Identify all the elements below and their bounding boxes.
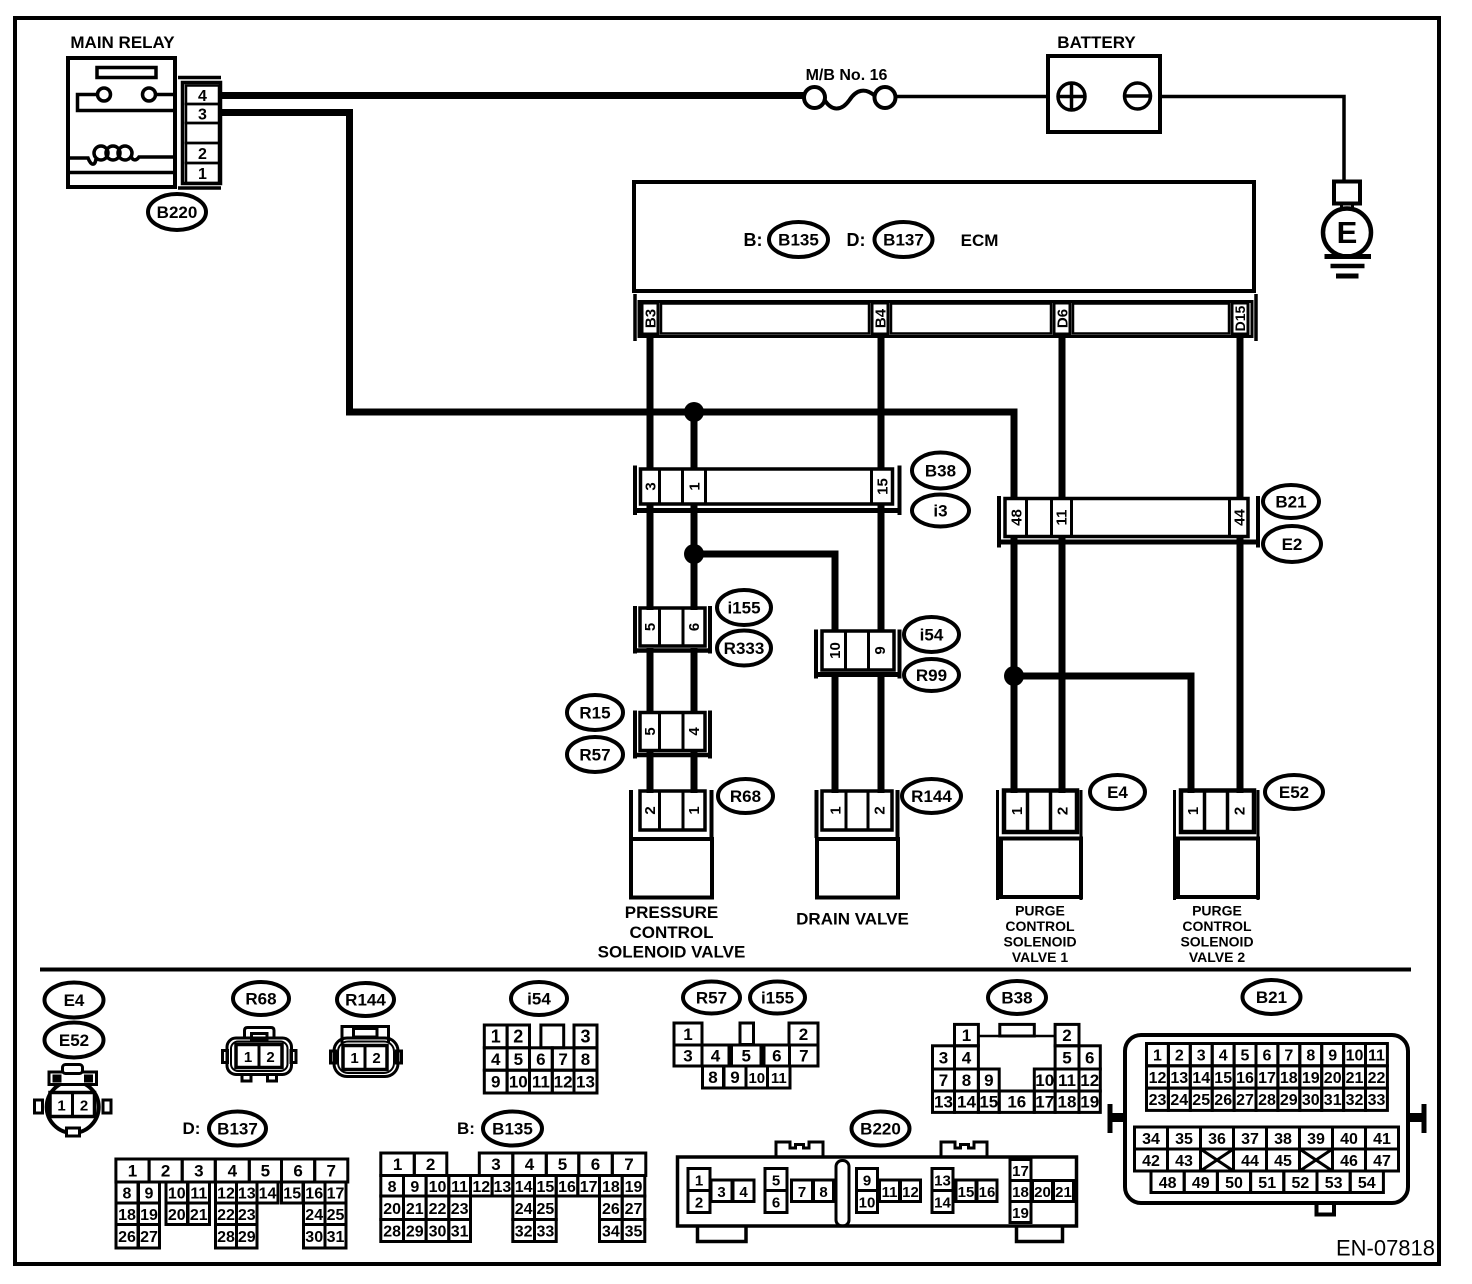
svg-text:6: 6 — [1085, 1048, 1094, 1067]
svg-text:11: 11 — [771, 1070, 787, 1087]
B135 pin 30 — [426, 1220, 449, 1242]
svg-text:27: 27 — [140, 1229, 158, 1246]
battery body — [1048, 56, 1160, 132]
i54 pin 7 — [552, 1048, 574, 1070]
B21/E2 left bracket — [997, 496, 1001, 548]
R15/R57 housing — [640, 713, 705, 751]
wire B38 pin 1 to i155 pin 6 — [691, 505, 698, 610]
B38/i3 right bracket — [898, 466, 902, 516]
wire branch junction to i54 pin 10 — [694, 554, 835, 632]
wire relay pin 3 power bus to B21/E2 pin 48 — [222, 113, 1014, 501]
B38 pin 10 — [1034, 1069, 1055, 1091]
B220 pin 1 — [186, 163, 219, 183]
B21 pin 26 — [1212, 1088, 1234, 1110]
svg-text:4: 4 — [491, 1050, 501, 1069]
B21/E2 divider 2 — [1050, 499, 1053, 537]
B21 pin 30 — [1300, 1088, 1322, 1110]
ECM U1 body — [634, 182, 1254, 291]
B21 pin 4 — [1212, 1044, 1234, 1066]
svg-text:CONTROL: CONTROL — [629, 923, 713, 942]
ECM pin D6 — [1054, 303, 1071, 334]
i155/R333 divider 2 — [682, 608, 685, 646]
svg-text:10: 10 — [1346, 1048, 1364, 1065]
B21 face left tab bar — [1108, 1104, 1113, 1133]
svg-text:3: 3 — [580, 1026, 590, 1046]
svg-text:23: 23 — [1149, 1092, 1167, 1109]
svg-text:CONTROL: CONTROL — [1005, 918, 1075, 934]
svg-text:9: 9 — [863, 1173, 871, 1190]
svg-text:19: 19 — [140, 1207, 158, 1224]
B137 pin 16 — [304, 1182, 326, 1203]
svg-text:48: 48 — [1159, 1175, 1177, 1192]
svg-text:5: 5 — [514, 1050, 523, 1069]
connector B220 top bracket — [178, 76, 221, 80]
B38 pin 13 — [933, 1091, 955, 1112]
B21 pin 36 — [1201, 1127, 1234, 1149]
svg-text:D15: D15 — [1232, 305, 1248, 331]
wire branch junction to E52 pin 1 — [1014, 676, 1191, 793]
svg-text:B135: B135 — [778, 231, 819, 250]
B137 pin 23 — [237, 1203, 258, 1225]
junction bus to B38 pin 1 — [684, 402, 704, 422]
R57/i155 connector face grid — [674, 1023, 818, 1088]
svg-text:2: 2 — [1175, 1048, 1184, 1065]
svg-text:43: 43 — [1175, 1153, 1193, 1170]
svg-text:R68: R68 — [245, 990, 276, 1009]
face view designator R57 — [683, 982, 740, 1014]
ground E symbol — [1323, 209, 1371, 257]
B135 pin 10 — [426, 1176, 449, 1197]
svg-text:B21: B21 — [1275, 493, 1306, 512]
R15/R57 bottom bar — [633, 753, 712, 758]
svg-text:E4: E4 — [1107, 783, 1128, 802]
svg-text:44: 44 — [1231, 509, 1248, 526]
svg-text:28: 28 — [1258, 1092, 1276, 1109]
svg-text:22: 22 — [1368, 1070, 1386, 1087]
wire fuse to battery positive — [896, 95, 1049, 99]
wire ECM B4 down to B38 pin 15 — [878, 334, 885, 470]
R68 connector face view — [223, 1028, 297, 1082]
i155/R333 divider 1 — [658, 608, 661, 646]
svg-text:4: 4 — [1219, 1048, 1228, 1065]
B21 pin 25 — [1190, 1088, 1212, 1110]
wire B21/E2 pin 48 to E4 pin 1 — [1011, 538, 1018, 793]
svg-text:2: 2 — [642, 806, 659, 814]
B137 pin 8 — [116, 1182, 138, 1203]
B38/i3 housing — [641, 469, 893, 504]
svg-text:10: 10 — [168, 1186, 186, 1203]
B220 face top tab 2 — [941, 1142, 987, 1156]
label PURGE CONTROL SOLENOID VALVE 2 — [1180, 903, 1253, 966]
connector designator R68 — [718, 779, 773, 813]
E52 housing — [1181, 791, 1254, 833]
B38 pin 9 — [978, 1069, 999, 1091]
face view designator B137 — [209, 1112, 266, 1146]
svg-text:46: 46 — [1340, 1153, 1358, 1170]
svg-text:10: 10 — [827, 642, 844, 659]
B220 face top tab 1 — [776, 1142, 823, 1156]
svg-text:7: 7 — [624, 1155, 633, 1174]
B135 pin 2 — [414, 1153, 447, 1176]
B135 pin 11 — [449, 1176, 471, 1197]
svg-text:17: 17 — [327, 1186, 345, 1203]
B21 face right tab bar — [1422, 1104, 1427, 1133]
svg-text:8: 8 — [962, 1071, 971, 1090]
B21 pin 40 — [1333, 1127, 1366, 1149]
svg-text:11: 11 — [190, 1186, 207, 1203]
svg-text:14: 14 — [934, 1195, 951, 1212]
B137 pin 21 — [188, 1203, 210, 1225]
svg-text:6: 6 — [591, 1155, 600, 1174]
B21 pin 39 — [1300, 1127, 1333, 1149]
wire B21/E2 pin 44 to E52 pin 2 — [1237, 538, 1244, 793]
B38 face key tab — [1000, 1024, 1035, 1036]
B220 pin 3 — [711, 1180, 732, 1202]
connector designator i155 — [717, 590, 771, 625]
connector B220 housing — [183, 83, 221, 184]
svg-text:1: 1 — [827, 806, 844, 814]
i54 connector face grid — [484, 1025, 597, 1093]
B220 face key slot — [836, 1161, 849, 1227]
svg-text:i54: i54 — [527, 990, 551, 1009]
svg-text:10: 10 — [859, 1195, 876, 1212]
B38 pin 16 — [999, 1091, 1034, 1112]
R144 connector face view — [331, 1027, 402, 1077]
svg-text:3: 3 — [642, 482, 659, 490]
i155/R333 right bracket — [708, 606, 712, 654]
svg-text:3: 3 — [194, 1162, 203, 1181]
i54 pin 3 — [574, 1025, 597, 1048]
svg-text:DRAIN VALVE: DRAIN VALVE — [796, 910, 909, 929]
i155/R333 housing — [640, 608, 705, 646]
B38 pin 5 — [1055, 1046, 1079, 1069]
B220 pin 1 — [688, 1169, 710, 1191]
face view designator E52 — [45, 1023, 104, 1058]
B21 pin 51 — [1251, 1171, 1284, 1193]
drain valve body — [817, 839, 898, 898]
svg-text:27: 27 — [625, 1201, 643, 1218]
svg-text:39: 39 — [1307, 1131, 1325, 1148]
B38 pin 4 — [955, 1046, 979, 1069]
svg-text:4: 4 — [711, 1047, 721, 1066]
B137 pin 20 — [166, 1203, 188, 1225]
face view designator i155 — [750, 982, 805, 1014]
svg-text:R57: R57 — [696, 989, 727, 1008]
connector designator i54 — [904, 617, 959, 652]
connector designator B137 — [875, 222, 933, 257]
B21 pin 50 — [1217, 1171, 1250, 1193]
svg-text:28: 28 — [217, 1229, 235, 1246]
i54/R99 bottom bar — [814, 672, 902, 677]
svg-text:D6: D6 — [1054, 309, 1071, 328]
relay contact right terminal — [143, 88, 156, 101]
svg-text:16: 16 — [305, 1186, 323, 1203]
fuse M/B No.16 left terminal — [804, 87, 825, 108]
B21 pin 52 — [1284, 1171, 1317, 1193]
svg-text:53: 53 — [1325, 1175, 1343, 1192]
R15/R57 left bracket — [633, 711, 637, 759]
junction to purge valve 2 branch — [1004, 666, 1024, 686]
svg-text:11: 11 — [1053, 510, 1070, 526]
svg-text:12: 12 — [1149, 1070, 1167, 1087]
fuse element wire — [824, 91, 875, 109]
connector designator B21 — [1263, 485, 1319, 518]
svg-text:48: 48 — [1008, 509, 1025, 526]
B137 pin 11 — [188, 1182, 210, 1203]
B21 pin 38 — [1267, 1127, 1300, 1149]
svg-text:16: 16 — [1236, 1070, 1254, 1087]
B137 pin 18 — [116, 1203, 138, 1225]
B21 pin 24 — [1168, 1088, 1190, 1110]
svg-text:20: 20 — [1034, 1184, 1051, 1201]
ground neck right — [1351, 204, 1354, 212]
ground bar 3 — [1336, 274, 1359, 279]
svg-text:15: 15 — [1214, 1070, 1232, 1087]
B137 pin 15 — [282, 1182, 304, 1203]
svg-text:9: 9 — [730, 1068, 739, 1087]
svg-text:9: 9 — [984, 1071, 993, 1090]
B220 face bottom tab 1 — [698, 1228, 747, 1242]
face view designator B38 — [988, 981, 1046, 1014]
svg-text:17: 17 — [580, 1179, 598, 1196]
svg-text:19: 19 — [1012, 1205, 1029, 1222]
relay coil — [94, 146, 132, 160]
B220 face housing — [678, 1157, 1077, 1226]
B21 face right tab link — [1408, 1113, 1424, 1122]
svg-text:B21: B21 — [1256, 988, 1287, 1007]
connector designator B220 — [148, 194, 206, 230]
svg-text:12: 12 — [902, 1184, 919, 1201]
svg-text:13: 13 — [576, 1073, 595, 1092]
R57/i155 pin 10 — [746, 1066, 768, 1088]
R144 divider 2 — [867, 791, 870, 830]
svg-text:4: 4 — [198, 88, 207, 105]
svg-text:9: 9 — [491, 1073, 500, 1092]
B21 pin 46 — [1333, 1149, 1366, 1171]
i54 pin 2 — [507, 1025, 529, 1048]
i54 pin 12 — [552, 1070, 574, 1093]
wire R15 pin 5 to R68 pin 2 — [647, 752, 654, 793]
connector designator B38 — [912, 453, 969, 489]
wire i54 pin 10 to R144 pin 1 — [832, 672, 839, 793]
svg-text:21: 21 — [406, 1201, 424, 1218]
svg-text:i54: i54 — [920, 626, 944, 645]
B137 pin 7 — [315, 1159, 348, 1182]
svg-text:R15: R15 — [579, 704, 610, 723]
svg-text:13: 13 — [1170, 1070, 1188, 1087]
svg-text:32: 32 — [515, 1224, 533, 1241]
svg-text:17: 17 — [1258, 1070, 1276, 1087]
svg-text:SOLENOID: SOLENOID — [1003, 934, 1076, 950]
svg-text:6: 6 — [536, 1050, 545, 1069]
svg-text:2: 2 — [266, 1049, 274, 1066]
B135 pin 6 — [579, 1153, 613, 1176]
svg-text:1: 1 — [350, 1050, 358, 1067]
B137 pin 5 — [249, 1159, 281, 1182]
B220 pin 6 — [765, 1191, 787, 1213]
E4 left bracket — [996, 790, 999, 900]
B137 pin 24 — [304, 1203, 326, 1225]
B21 pin 13 — [1168, 1066, 1190, 1088]
svg-text:31: 31 — [327, 1229, 345, 1246]
svg-text:13: 13 — [934, 1093, 953, 1112]
B21 pin 1 — [1147, 1044, 1169, 1066]
connector designator R144 — [902, 779, 961, 813]
svg-text:15: 15 — [958, 1184, 975, 1201]
svg-text:3: 3 — [198, 107, 207, 124]
B38 pin 8 — [955, 1069, 979, 1091]
svg-text:15: 15 — [283, 1186, 301, 1203]
svg-text:ECM: ECM — [961, 231, 999, 250]
svg-text:31: 31 — [451, 1224, 469, 1241]
svg-text:D:: D: — [183, 1119, 201, 1138]
svg-text:5: 5 — [1241, 1048, 1250, 1065]
B21/E2 bottom bar — [997, 540, 1260, 545]
B135 pin 25 — [535, 1196, 557, 1220]
svg-text:25: 25 — [537, 1201, 555, 1218]
purge control solenoid valve 1 body — [1001, 839, 1081, 898]
B135 pin 35 — [622, 1220, 645, 1242]
B135 pin 19 — [622, 1176, 645, 1197]
i54 pin 8 — [574, 1048, 597, 1070]
svg-text:1: 1 — [1009, 807, 1026, 815]
E4 housing — [1004, 791, 1077, 833]
svg-text:14: 14 — [515, 1179, 533, 1196]
B220 pin 9 — [857, 1169, 878, 1191]
B220 pin 20 — [1033, 1181, 1053, 1202]
svg-text:5: 5 — [261, 1162, 270, 1181]
B135 pin 3 — [479, 1153, 513, 1176]
B21 pin 15 — [1212, 1066, 1234, 1088]
i54 pin 5 — [507, 1048, 529, 1070]
svg-text:6: 6 — [293, 1162, 302, 1181]
R57/i155 pin 9 — [724, 1066, 746, 1088]
B21 pin 2 — [1168, 1044, 1190, 1066]
i54/R99 left bracket — [814, 630, 818, 679]
B135 pin 28 — [381, 1220, 404, 1242]
svg-text:14: 14 — [259, 1186, 277, 1203]
svg-text:10: 10 — [748, 1070, 765, 1087]
ground bar 2 — [1331, 264, 1365, 269]
B38 pin 7 — [933, 1069, 955, 1091]
svg-text:12: 12 — [472, 1179, 490, 1196]
R144 left bracket — [815, 790, 819, 838]
B135 pin 22 — [426, 1196, 449, 1220]
svg-text:44: 44 — [1241, 1153, 1259, 1170]
svg-text:14: 14 — [957, 1093, 976, 1112]
B135 pin 9 — [404, 1176, 427, 1197]
relay contact wire to pin 4 — [156, 93, 174, 97]
svg-text:8: 8 — [708, 1068, 717, 1087]
svg-text:42: 42 — [1142, 1153, 1160, 1170]
ground connector block — [1334, 182, 1360, 204]
R57/i155 pin 5 — [732, 1045, 762, 1066]
B137 pin 9 — [139, 1182, 160, 1203]
svg-text:34: 34 — [602, 1224, 620, 1241]
B135 connector face grid — [381, 1153, 646, 1242]
B21 pin 22 — [1366, 1066, 1388, 1088]
svg-text:1: 1 — [244, 1049, 252, 1066]
svg-text:13: 13 — [494, 1179, 512, 1196]
B135 pin 24 — [513, 1196, 535, 1220]
svg-text:20: 20 — [383, 1201, 401, 1218]
R144 right bracket — [896, 790, 900, 838]
B220 pin 16 — [977, 1180, 997, 1202]
R15/R57 divider 1 — [658, 713, 661, 751]
connector designator R99 — [904, 659, 959, 691]
B137 pin 12 — [216, 1182, 237, 1203]
i54/R99 divider 1 — [844, 631, 847, 670]
B220 pin 14 — [932, 1191, 953, 1213]
B38/i3 divider 2 — [681, 469, 684, 504]
R57/i155 pin 11 — [768, 1066, 791, 1088]
B135 pin 20 — [381, 1196, 404, 1220]
ECM pin B4 — [872, 303, 889, 334]
svg-text:i155: i155 — [727, 599, 760, 618]
B137 pin 3 — [182, 1159, 215, 1182]
svg-text:B38: B38 — [925, 462, 956, 481]
svg-text:4: 4 — [962, 1048, 972, 1067]
wire ECM B3 down to B38 pin 3 — [647, 334, 654, 470]
svg-text:7: 7 — [1284, 1048, 1293, 1065]
B21/E2 housing — [1005, 499, 1248, 537]
svg-text:1: 1 — [686, 806, 703, 814]
B38/i3 divider 4 — [870, 469, 873, 504]
svg-text:31: 31 — [1324, 1092, 1342, 1109]
svg-text:11: 11 — [1368, 1048, 1385, 1065]
B135 pin 21 — [404, 1196, 427, 1220]
svg-text:7: 7 — [326, 1162, 335, 1181]
B220 pin 17 — [1010, 1160, 1031, 1181]
B135 pin 14 — [513, 1176, 535, 1197]
E52 divider 1 — [1203, 791, 1207, 833]
svg-text:1: 1 — [393, 1155, 402, 1174]
svg-text:23: 23 — [451, 1201, 469, 1218]
B135 pin 16 — [556, 1176, 578, 1197]
svg-text:17: 17 — [1012, 1163, 1029, 1180]
svg-text:1: 1 — [1153, 1048, 1162, 1065]
svg-text:E2: E2 — [1282, 535, 1303, 554]
svg-text:9: 9 — [1328, 1048, 1337, 1065]
section separator line — [40, 968, 1411, 972]
wire B38 pin 15 to i54 pin 9 — [878, 505, 885, 632]
connector B220 bottom bracket — [178, 186, 221, 190]
svg-text:41: 41 — [1373, 1131, 1391, 1148]
svg-text:30: 30 — [305, 1229, 323, 1246]
B21 pin 45 — [1267, 1149, 1300, 1171]
B21/E2 right bracket — [1256, 496, 1260, 548]
svg-text:3: 3 — [1197, 1048, 1206, 1065]
svg-text:21: 21 — [1055, 1184, 1072, 1201]
B135 pin 34 — [600, 1220, 623, 1242]
B135 pin 23 — [449, 1196, 471, 1220]
relay MAIN RELAY body — [68, 58, 175, 187]
face view designator B135 — [483, 1112, 542, 1146]
i54 blank key cell — [541, 1025, 564, 1048]
pressure control solenoid valve body — [631, 839, 712, 898]
R57/i155 pin 3 — [674, 1045, 702, 1066]
B21 pin 10 — [1344, 1044, 1366, 1066]
ECM strip right bracket — [1254, 294, 1258, 341]
i54 pin 13 — [574, 1070, 597, 1093]
B135 pin 33 — [535, 1220, 557, 1242]
svg-text:20: 20 — [1324, 1070, 1342, 1087]
B220 pin 19 — [1010, 1202, 1031, 1223]
B220 pin 18 — [1010, 1181, 1031, 1202]
svg-text:21: 21 — [190, 1207, 208, 1224]
B38 pin 2 — [1055, 1024, 1079, 1045]
svg-text:1: 1 — [695, 1173, 703, 1190]
